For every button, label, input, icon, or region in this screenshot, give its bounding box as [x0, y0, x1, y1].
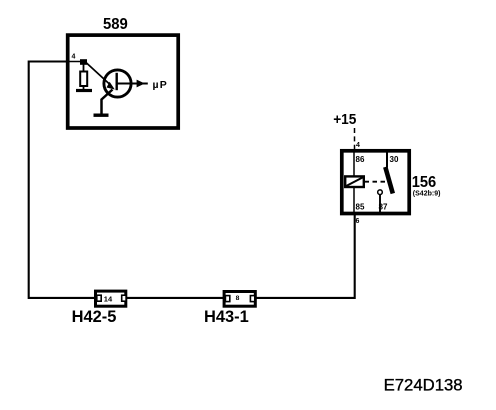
- svg-text:4: 4: [72, 54, 76, 61]
- svg-text:4: 4: [356, 142, 360, 149]
- svg-text:86: 86: [356, 155, 365, 164]
- svg-text:H43-1: H43-1: [204, 307, 249, 326]
- svg-text:8: 8: [236, 295, 240, 302]
- svg-text:589: 589: [103, 16, 128, 33]
- svg-text:H42-5: H42-5: [72, 307, 117, 326]
- svg-text:(S42b:9): (S42b:9): [413, 191, 441, 198]
- svg-text:E724D138: E724D138: [384, 375, 463, 394]
- svg-text:87: 87: [379, 203, 388, 212]
- svg-text:156: 156: [412, 174, 437, 191]
- svg-text:30: 30: [390, 155, 399, 164]
- svg-text:6: 6: [356, 218, 360, 225]
- svg-text:µP: µP: [153, 79, 168, 91]
- svg-text:85: 85: [356, 203, 365, 212]
- svg-text:+15: +15: [333, 111, 356, 128]
- svg-text:14: 14: [104, 295, 113, 304]
